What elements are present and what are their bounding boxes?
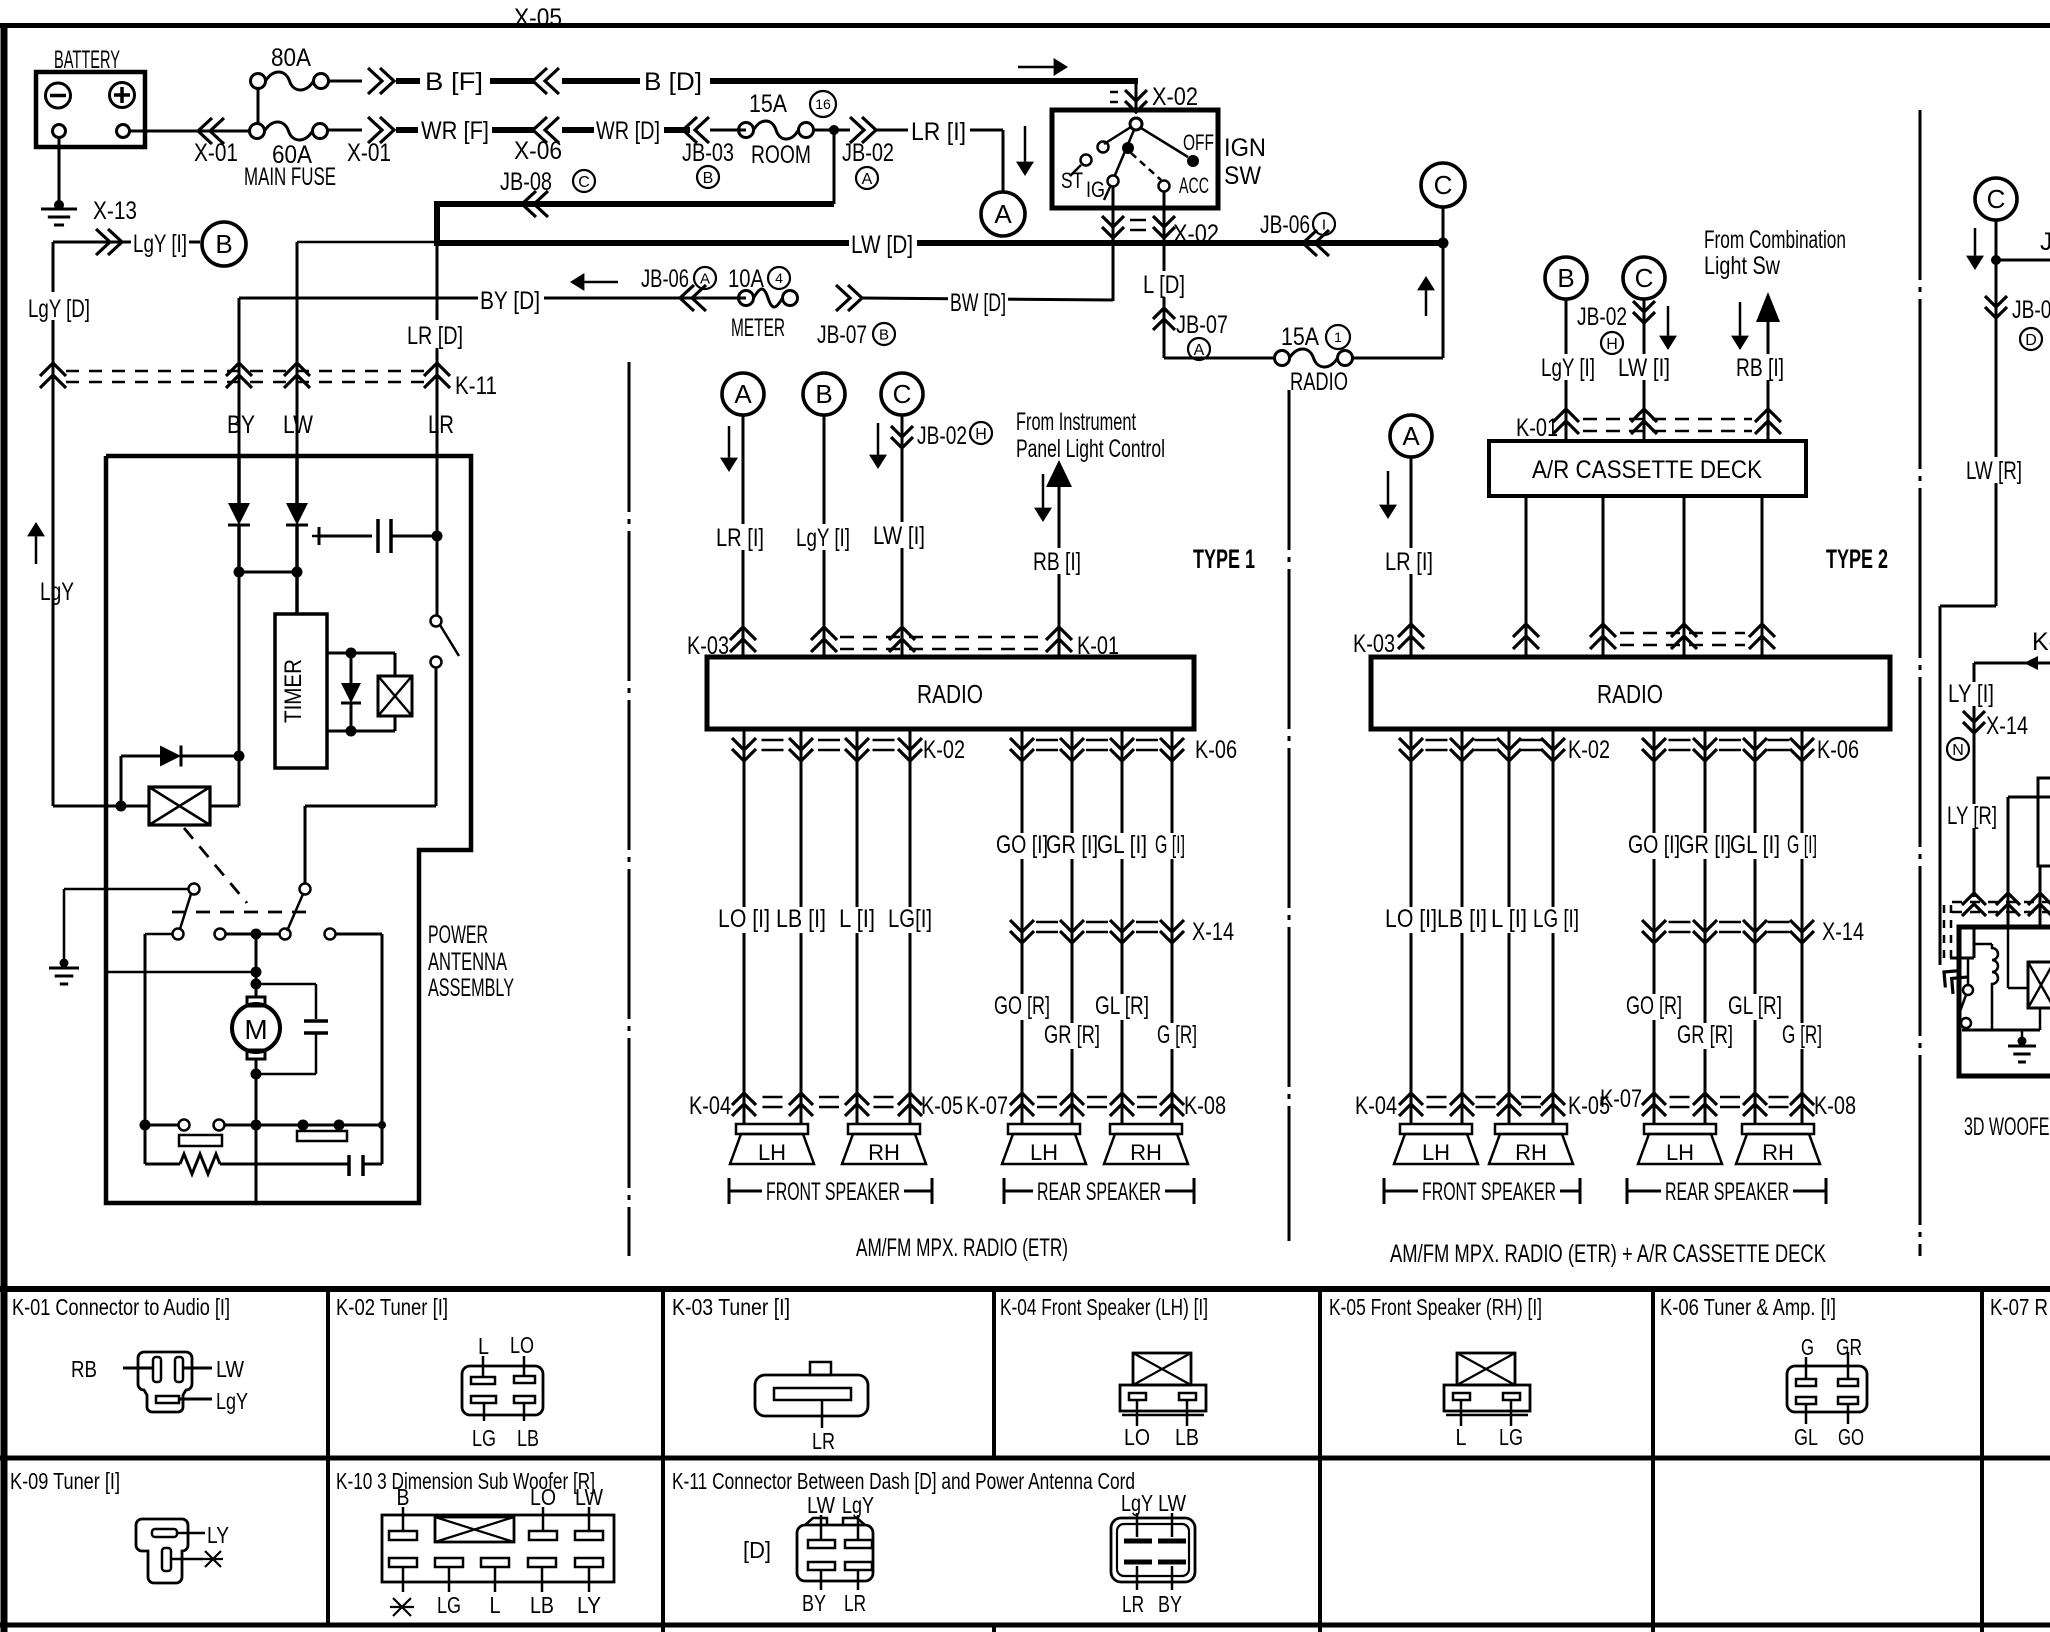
svg-text:A/R CASSETTE DECK: A/R CASSETTE DECK: [1532, 456, 1762, 484]
svg-text:TYPE 2: TYPE 2: [1826, 544, 1888, 574]
svg-text:10A: 10A: [728, 265, 764, 293]
left contact wire down: [145, 933, 172, 936]
svg-text:LB: LB: [517, 1425, 539, 1451]
limit switch plate right: [297, 1131, 347, 1141]
svg-text:4: 4: [775, 270, 783, 286]
table column lines row2: [326, 1458, 330, 1625]
connector K-11 chevron BY: [226, 363, 252, 376]
connector K-11 chevron LgY: [40, 363, 66, 376]
svg-text:JB-02: JB-02: [1577, 303, 1627, 331]
svg-text:A: A: [734, 379, 752, 409]
motor bottom wire: [255, 1059, 258, 1203]
svg-text:JB-06: JB-06: [1260, 211, 1310, 239]
wire battery to main fuse: [129, 130, 250, 133]
woofer bottom rail: [1962, 1029, 2040, 1032]
timer unit: [275, 614, 327, 768]
svg-text:LR: LR: [844, 1590, 866, 1616]
IGN SW common contact: [1130, 118, 1142, 130]
ground symbol antenna: [49, 967, 79, 970]
battery negative terminal: [46, 83, 71, 108]
svg-text:K-08: K-08: [1184, 1092, 1226, 1120]
svg-text:IG: IG: [1086, 177, 1105, 202]
svg-text:K-03: K-03: [1353, 630, 1395, 658]
svg-text:JB-06: JB-06: [641, 265, 689, 293]
svg-text:TIMER: TIMER: [280, 659, 307, 723]
svg-text:REAR SPEAKER: REAR SPEAKER: [1037, 1178, 1161, 1206]
svg-text:LW: LW: [1158, 1490, 1186, 1516]
antenna switch right blade: [300, 884, 311, 895]
svg-text:G [R]: G [R]: [1157, 1021, 1197, 1049]
svg-text:LgY: LgY: [1121, 1490, 1153, 1516]
svg-text:MAIN FUSE: MAIN FUSE: [244, 163, 336, 191]
svg-text:AM/FM MPX. RADIO (ETR) + A/R C: AM/FM MPX. RADIO (ETR) + A/R CASSETTE DE…: [1390, 1240, 1826, 1268]
svg-text:LW [D]: LW [D]: [851, 231, 913, 259]
label LR [I] type1: [714, 524, 766, 550]
wire GR type2: [1704, 729, 1707, 1124]
label LY [I]: [1947, 682, 1997, 706]
svg-text:LB [I]: LB [I]: [776, 905, 826, 933]
connector JB-08: [522, 191, 536, 217]
connector K-07 K-08 chevrons type2: [1642, 1093, 1666, 1105]
svg-text:15A: 15A: [749, 90, 787, 118]
connector K-04 K-05 chevrons type1: [732, 1093, 756, 1105]
wire GO type1: [1021, 729, 1024, 1124]
circled A JB-07: [1188, 338, 1210, 360]
svg-text:LW [R]: LW [R]: [1966, 457, 2022, 485]
svg-text:LH: LH: [1666, 1140, 1694, 1165]
svg-text:RADIO: RADIO: [1290, 368, 1348, 396]
connector X-13: [108, 229, 122, 255]
circled H JB-02 type2: [1601, 332, 1623, 354]
svg-text:G [R]: G [R]: [1782, 1021, 1822, 1049]
arrowhead on K line: [2024, 656, 2038, 670]
wire GL type1: [1121, 729, 1124, 1124]
labels LO LB L LG [I] type2: [1383, 907, 1439, 933]
svg-text:LB: LB: [530, 1592, 554, 1618]
connector X-02 on ACC wire: [1153, 216, 1175, 227]
svg-text:ROOM: ROOM: [751, 141, 811, 169]
connector X-14 right strip: [1963, 711, 1985, 722]
connector JB-09: [1985, 296, 2007, 307]
svg-text:C: C: [1987, 184, 2006, 214]
connector X-14 chevrons type1: [1010, 920, 1034, 932]
svg-text:K-06 Tuner & Amp. [I]: K-06 Tuner & Amp. [I]: [1660, 1294, 1836, 1320]
woofer switch: [1967, 958, 1970, 984]
svg-text:L: L: [490, 1592, 501, 1618]
wire cassette deck output 1: [1525, 496, 1528, 657]
svg-text:LO [I]: LO [I]: [1385, 905, 1437, 933]
svg-text:L [D]: L [D]: [1143, 271, 1185, 299]
svg-text:AM/FM MPX. RADIO (ETR): AM/FM MPX. RADIO (ETR): [856, 1234, 1068, 1262]
speaker front LH type1: [736, 1124, 808, 1134]
speaker front LH type2: [1400, 1124, 1472, 1134]
svg-text:LgY [D]: LgY [D]: [28, 295, 90, 323]
battery positive terminal: [110, 83, 135, 108]
relay coil crossed box: [149, 787, 210, 825]
net circle C top right: [1421, 163, 1465, 207]
svg-text:GR [I]: GR [I]: [1046, 831, 1098, 859]
svg-text:GL [I]: GL [I]: [1097, 831, 1147, 859]
rear speaker bracket type1: [1004, 1190, 1194, 1193]
svg-text:GO: GO: [1838, 1424, 1864, 1450]
wire cassette deck output 2: [1602, 496, 1605, 657]
wire ACC output down: [1163, 191, 1166, 358]
wire to ROOM fuse: [710, 129, 746, 132]
wire GR type1: [1071, 729, 1074, 1124]
svg-text:GR [R]: GR [R]: [1677, 1021, 1733, 1049]
svg-text:X-14: X-14: [1192, 918, 1234, 946]
woofer ground: [2021, 1030, 2024, 1040]
wire LG type2: [1552, 729, 1555, 1124]
connector K-04 K-05 chevrons type2: [1399, 1093, 1423, 1105]
labels GO GR GL G [I] type1: [994, 833, 1050, 859]
circled 4 meter fuse: [768, 267, 790, 289]
svg-text:JB-02: JB-02: [917, 422, 967, 450]
svg-text:LR [D]: LR [D]: [407, 322, 463, 350]
svg-text:LgY: LgY: [842, 1492, 874, 1518]
svg-text:LO: LO: [1124, 1424, 1150, 1450]
dashed relay linkage: [184, 828, 247, 903]
svg-text:TYPE 1: TYPE 1: [1193, 544, 1255, 574]
svg-text:H: H: [1606, 336, 1618, 353]
svg-text:X-01: X-01: [194, 139, 238, 167]
svg-text:LY: LY: [577, 1592, 601, 1618]
net circle C type1: [881, 373, 923, 415]
connector X-01 right (B row): [380, 68, 394, 94]
svg-text:16: 16: [815, 96, 831, 112]
svg-text:LH: LH: [1030, 1140, 1058, 1165]
table row divider 2: [0, 1623, 2050, 1628]
svg-text:LgY [I]: LgY [I]: [1541, 354, 1595, 382]
speaker rear RH type2: [1742, 1124, 1814, 1134]
svg-text:D: D: [2025, 332, 2037, 349]
arrow right above B wire: [1018, 66, 1054, 69]
svg-text:RH: RH: [1130, 1140, 1162, 1165]
svg-text:X-01: X-01: [347, 139, 391, 167]
solenoid crossed box timer branch: [378, 676, 412, 716]
svg-text:G [I]: G [I]: [1155, 831, 1185, 859]
svg-text:LgY: LgY: [40, 578, 74, 606]
capacitor bottom: [347, 1155, 351, 1176]
svg-text:B: B: [703, 170, 714, 187]
radio box type1: [707, 657, 1194, 729]
svg-text:LgY [I]: LgY [I]: [796, 524, 850, 552]
svg-text:K-08: K-08: [1814, 1092, 1856, 1120]
svg-text:LB: LB: [1175, 1424, 1199, 1450]
svg-text:G: G: [1801, 1334, 1814, 1360]
wire L [I] type1: [856, 729, 859, 1124]
wire jog left and down: [1940, 605, 1996, 608]
svg-text:A: A: [1402, 421, 1420, 451]
svg-text:L [I]: L [I]: [1491, 905, 1527, 933]
svg-text:BW [D]: BW [D]: [950, 289, 1006, 317]
connector K-11 dash side glyph: [797, 1525, 873, 1581]
junction dot LW/C: [1438, 238, 1449, 249]
section divider dash-dot between TYPE 1 and TYPE 2: [1288, 390, 1291, 1241]
svg-text:BY: BY: [1158, 1591, 1182, 1617]
svg-text:RB: RB: [71, 1356, 97, 1382]
connector K-06 chevrons type1: [1010, 738, 1034, 750]
svg-text:K-07 R: K-07 R: [1990, 1294, 2048, 1320]
svg-text:LO: LO: [510, 1332, 534, 1358]
wire K line from right edge: [1974, 662, 2050, 665]
connector X-05: [533, 68, 547, 94]
svg-text:A: A: [1194, 342, 1205, 359]
svg-text:K-06: K-06: [1195, 736, 1237, 764]
svg-text:JB-07: JB-07: [1176, 311, 1228, 339]
svg-text:ST: ST: [1061, 168, 1083, 193]
connector JB-07 on ACC wire: [1153, 308, 1175, 319]
connector X-01 left: [198, 118, 212, 144]
table column lines row3: [661, 1625, 665, 1632]
svg-text:K-09 Tuner [I]: K-09 Tuner [I]: [10, 1468, 120, 1494]
wire L type2: [1508, 729, 1511, 1124]
svg-text:L [I]: L [I]: [839, 905, 875, 933]
net circle A type1: [722, 373, 764, 415]
svg-text:GO [I]: GO [I]: [996, 831, 1048, 859]
svg-text:LG[I]: LG[I]: [888, 905, 932, 933]
svg-text:ACC: ACC: [1179, 173, 1209, 198]
svg-text:JB-02: JB-02: [842, 139, 894, 167]
label RB [I] type2: [1734, 354, 1786, 380]
svg-text:OFF: OFF: [1183, 130, 1214, 155]
circled B JB-03: [697, 166, 719, 188]
svg-text:K-10 3 Dimension Sub Woofer [: K-10 3 Dimension Sub Woofer [R]: [336, 1468, 595, 1494]
switch right throw contact: [325, 929, 336, 940]
net circle B type1: [803, 373, 845, 415]
svg-text:RB [I]: RB [I]: [1736, 354, 1784, 382]
wire BY down to relay branch: [238, 572, 241, 756]
label LW [I] type1: [871, 522, 927, 548]
svg-text:LW: LW: [216, 1356, 244, 1382]
svg-text:LR: LR: [812, 1428, 835, 1454]
svg-text:C: C: [1635, 263, 1654, 293]
wire to X-13: [53, 241, 200, 244]
svg-text:K-01: K-01: [1516, 414, 1558, 442]
wire BW [D]: [862, 298, 1113, 300]
svg-text:LG [I]: LG [I]: [1533, 905, 1579, 933]
svg-text:C: C: [578, 174, 590, 191]
labels GO GL [R] type1: [992, 994, 1052, 1020]
junction room fuse output: [813, 129, 850, 132]
svg-text:N: N: [1952, 742, 1964, 759]
wire BY [D]: [239, 297, 746, 300]
svg-text:GL [R]: GL [R]: [1095, 992, 1149, 1020]
svg-text:L: L: [478, 1333, 489, 1359]
svg-text:K-04: K-04: [689, 1092, 731, 1120]
section divider dash-dot right of TYPE 2: [1919, 110, 1922, 1256]
connector K-02 glyph: [462, 1366, 543, 1415]
battery: [36, 72, 145, 147]
fuse 80A main: [251, 74, 266, 89]
label LW [I] type2: [1616, 354, 1672, 380]
wire LB [I] type1: [800, 729, 803, 1124]
connector arrow bottom left strip: [1937, 964, 1967, 994]
woofer relay coil: [1974, 943, 1992, 946]
svg-text:FRONT SPEAKER: FRONT SPEAKER: [766, 1178, 900, 1206]
svg-text:K-05: K-05: [921, 1092, 963, 1120]
wire RB to K-01 type2: [1767, 322, 1770, 441]
wire LR [D] down to K-11: [436, 243, 439, 456]
arrow to panel light control: [1046, 460, 1072, 487]
wire RB to radio: [1058, 485, 1061, 657]
cassette deck box: [1489, 441, 1806, 496]
connector JB-06 (A): [680, 285, 694, 311]
wire LO type2: [1410, 729, 1413, 1124]
relay right lead to BY wire: [210, 805, 239, 808]
ground symbol battery: [41, 208, 77, 211]
svg-text:X-06: X-06: [514, 137, 562, 165]
svg-text:JB-09: JB-09: [2012, 296, 2050, 324]
labels LO LB L LG [I] type1: [716, 907, 772, 933]
flyback diode over relay: [120, 756, 123, 806]
svg-text:LG: LG: [437, 1592, 461, 1618]
wire JB-08 thick bus: [437, 204, 834, 246]
connector JB-02 type2: [1633, 301, 1655, 312]
connector K-07 K-08 chevrons type1: [1010, 1093, 1034, 1105]
svg-text:L: L: [1456, 1424, 1467, 1450]
labels GR G [R] type1: [1042, 1023, 1102, 1049]
connector K-01 row type2: [1583, 418, 1752, 421]
woofer wire LY inside: [1973, 927, 1976, 958]
wire WR [D] thick: [562, 127, 690, 133]
wire between fuses: [257, 88, 260, 124]
IGN SW arm to OFF dot: [1141, 128, 1188, 157]
svg-text:IGN: IGN: [1224, 134, 1266, 162]
svg-text:X-14: X-14: [1986, 712, 2028, 740]
svg-text:B: B: [397, 1484, 410, 1510]
wire C to radio: [901, 415, 904, 657]
net circle A top: [981, 192, 1025, 236]
wire LgY [D] down: [52, 242, 55, 806]
antenna switch left blade: [189, 884, 200, 895]
circled N: [1947, 738, 1969, 760]
woofer connector chevron row: [1962, 893, 1986, 905]
svg-text:GL [I]: GL [I]: [1730, 831, 1780, 859]
connector X-06: [533, 117, 547, 143]
svg-text:LO: LO: [530, 1484, 556, 1510]
wire LR down to switch: [436, 456, 439, 616]
connector K-09 glyph: [136, 1519, 188, 1583]
svg-text:LH: LH: [758, 1140, 786, 1165]
svg-text:GL: GL: [1794, 1424, 1818, 1450]
svg-text:3D WOOFER: 3D WOOFER: [1964, 1113, 2050, 1141]
svg-text:RH: RH: [868, 1140, 900, 1165]
connector X-02 top of IGN SW: [1125, 90, 1147, 101]
svg-text:GL [R]: GL [R]: [1728, 992, 1782, 1020]
speaker front RH type2: [1495, 1124, 1567, 1134]
wire from right edge y797: [2008, 796, 2050, 799]
limit switch plate left: [179, 1135, 222, 1146]
connector K-04 glyph: [1133, 1353, 1191, 1385]
label RB [I] type1: [1031, 548, 1083, 574]
fuse 15A ROOM: [739, 123, 754, 138]
wire down to circle A: [1002, 130, 1005, 192]
svg-text:A: A: [700, 270, 710, 287]
fuse 60A main: [250, 124, 265, 139]
svg-text:LY [I]: LY [I]: [1948, 680, 1994, 708]
svg-text:WR [F]: WR [F]: [421, 117, 489, 145]
connector X-01 right (WR row): [380, 117, 394, 143]
diode on BY wire: [237, 456, 241, 503]
svg-text:1: 1: [1334, 329, 1342, 345]
wire LW jog and drop: [297, 241, 437, 244]
label LW [R]: [1964, 457, 2024, 483]
junction BY-LW link: [239, 571, 297, 574]
motor feed wire: [255, 934, 258, 997]
svg-text:GR [R]: GR [R]: [1044, 1021, 1100, 1049]
arrow down beside LR wire: [1024, 126, 1027, 162]
circled H JB-02: [970, 422, 992, 444]
connector JB-07 (B): [848, 285, 862, 311]
svg-text:B [D]: B [D]: [644, 68, 702, 96]
svg-text:K-: K-: [2032, 628, 2050, 656]
dashed connector outline: [1943, 905, 1946, 962]
timer right branch bottom: [327, 730, 395, 733]
circled 16: [810, 91, 836, 117]
net circle C right strip: [1975, 178, 2017, 220]
relay left lead and LgY entry: [53, 805, 149, 808]
circled A JB-06: [694, 267, 716, 289]
section divider dash-dot left of TYPE 1: [628, 362, 631, 1256]
wire G type1: [1171, 729, 1174, 1124]
svg-text:RADIO: RADIO: [917, 679, 983, 709]
svg-text:LR [I]: LR [I]: [1385, 548, 1433, 576]
svg-text:H: H: [975, 426, 987, 443]
svg-text:LY [R]: LY [R]: [1947, 802, 1997, 830]
wire A to radio: [742, 415, 745, 657]
connector JB-02 (A): [862, 117, 876, 143]
wire LW [D] thick bus: [437, 240, 1443, 246]
svg-text:SW: SW: [1224, 162, 1261, 190]
svg-text:REAR SPEAKER: REAR SPEAKER: [1665, 1178, 1789, 1206]
svg-text:POWER: POWER: [428, 921, 488, 949]
lower contact row: [140, 1120, 151, 1131]
svg-text:K-06: K-06: [1817, 736, 1859, 764]
svg-text:A: A: [994, 199, 1012, 229]
connector K-05 glyph: [1457, 1353, 1515, 1385]
arrow down beside C wire: [877, 423, 880, 455]
connector JB-03: [683, 117, 697, 143]
3D woofer box: [1959, 927, 2050, 1076]
battery ground wire: [58, 137, 61, 205]
IGN SW arm to IG: [1115, 130, 1134, 175]
svg-text:LW [I]: LW [I]: [873, 522, 925, 550]
connector K-11 chevron LR: [424, 363, 450, 376]
arrow down below A: [728, 426, 731, 458]
wire LO [I] type1: [743, 729, 746, 1124]
labels GO GR GL G [I] type2: [1626, 833, 1682, 859]
arrow down beside RB wire: [1042, 474, 1045, 508]
wire cassette deck output 3: [1683, 496, 1686, 657]
arrow down right strip: [1974, 228, 1977, 256]
svg-text:LW: LW: [575, 1484, 603, 1510]
svg-text:WR [D]: WR [D]: [596, 117, 660, 145]
wire B [F] thick: [396, 78, 535, 84]
svg-text:K-01 Connector to Audio [I]: K-01 Connector to Audio [I]: [12, 1294, 230, 1320]
wire B to K-01 type2: [1565, 299, 1568, 441]
wire from cut component: [2039, 866, 2042, 927]
IGN SW box: [1052, 110, 1218, 208]
svg-text:GO [R]: GO [R]: [994, 992, 1050, 1020]
svg-text:ASSEMBLY: ASSEMBLY: [428, 974, 514, 1002]
svg-text:15A: 15A: [1281, 323, 1319, 351]
wire from switch to motor feed: [435, 667, 438, 806]
svg-text:JB-07: JB-07: [817, 321, 867, 349]
fuse 15A RADIO: [1275, 351, 1290, 366]
svg-text:X-05: X-05: [514, 4, 562, 32]
svg-text:K-02: K-02: [1568, 736, 1610, 764]
